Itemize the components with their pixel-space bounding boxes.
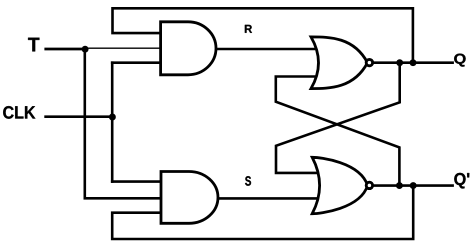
wire CLK to bottom AND input 1 [111,180,161,183]
wire R: top AND output to top NOR input 1 [212,48,318,51]
NOR gate U4 (bottom, output Q') [312,157,367,213]
junction T node [82,46,89,53]
wire Q feedback top [113,8,413,62]
wire S: bottom AND output to bottom NOR input 2 [214,197,318,200]
wire T to bottom AND input 2 [84,197,162,200]
junction Q' node a [396,182,403,189]
wire cross-couple Q to bottom NOR input 1 [276,61,400,173]
inverter bubble on U4 output [366,182,372,188]
label output Q' [454,173,469,189]
AND gate U1 (top, R = T·CLK·Q) [161,22,216,75]
wire CLK vertical [111,61,114,182]
label CLK input [3,106,35,119]
junction Q' node b [410,182,417,189]
junction Q node a [396,59,403,66]
label T input [28,38,39,52]
label node R [245,25,252,33]
junction Q node b [410,59,417,66]
NOR gate U3 (top, output Q) [311,37,368,89]
wire Q' output [369,184,454,187]
wire cross-couple Q' to top NOR input 2 [276,77,400,188]
AND gate U2 (bottom, S = T·CLK·Q') [161,172,218,224]
junction CLK node [109,114,116,121]
wire Q output [369,61,454,64]
label output Q [454,54,465,67]
wire CLK lead [44,115,113,118]
wire Q' feedback bottom [112,184,413,239]
wire T vertical drop [84,48,87,198]
wire T lead [44,48,86,51]
label node S [245,176,251,186]
wire T thin to top AND input 2 [85,47,161,49]
inverter bubble on U3 output [366,59,372,65]
wire CLK to top AND input 3 [111,61,161,64]
